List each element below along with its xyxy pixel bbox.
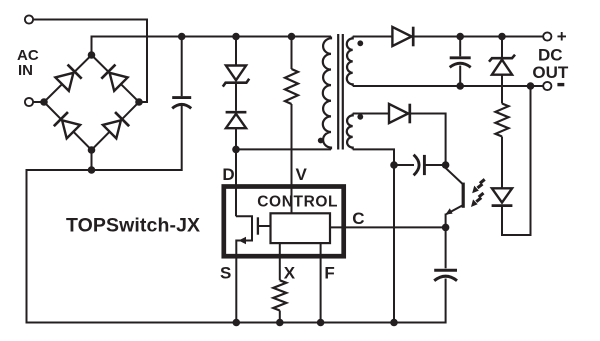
node output cap top <box>456 33 464 41</box>
label - <box>557 83 564 86</box>
node return bus below bridge <box>88 166 96 174</box>
node bias cap left <box>390 161 398 169</box>
wire AC line top from terminal to bridge right node <box>34 20 148 103</box>
svg-text:TOPSwitch-JX: TOPSwitch-JX <box>66 214 200 236</box>
svg-text:F: F <box>324 264 334 283</box>
diode output rectifier D2 <box>392 27 411 46</box>
svg-text:IN: IN <box>18 62 33 79</box>
wire zener feedback branch top <box>501 37 503 58</box>
wire AC bottom terminal to bridge left node <box>34 101 45 103</box>
wire primary return bus: cap bottom, left drop, bottom source rail, up to bypass cap <box>27 106 446 323</box>
node rail at clamp <box>232 33 240 41</box>
terminal DC OUT + <box>543 32 551 40</box>
node opto emitter / C pin <box>442 224 450 232</box>
transistor optocoupler phototransistor <box>446 165 464 185</box>
opto light arrows <box>471 177 486 194</box>
svg-text:CONTROL: CONTROL <box>257 193 338 210</box>
wire LED return to - rail <box>502 86 531 235</box>
diode clamp blocking D1 <box>226 111 247 114</box>
svg-text:DC: DC <box>538 46 563 65</box>
terminal AC input top <box>25 15 33 23</box>
wire HV+ rail from bridge to transformer primary <box>92 37 332 56</box>
bridge diode lower-right <box>103 112 130 139</box>
wire bias return down to source rail <box>353 149 394 322</box>
capacitor output C-out <box>459 37 461 57</box>
MOSFET internal Q <box>236 216 252 322</box>
resistor V-pin line sense <box>285 69 298 104</box>
resistor X external R-x <box>273 280 286 310</box>
terminal DC OUT - <box>543 82 551 90</box>
wire D node horizontal to primary bottom <box>236 148 331 150</box>
svg-text:+: + <box>557 27 567 46</box>
node source rail S <box>233 319 241 327</box>
terminal AC input bottom <box>25 98 33 106</box>
wire clamp branch upper <box>235 37 237 66</box>
transformer core <box>337 34 339 150</box>
node bridge top (+) <box>88 51 96 59</box>
LED optocoupler diode side <box>492 188 512 202</box>
wire V-pin sense branch upper <box>291 37 293 70</box>
wire F pin <box>320 243 322 322</box>
node bridge right <box>135 98 143 106</box>
wire resistor to opto LED <box>501 137 503 189</box>
svg-text:D: D <box>222 165 234 184</box>
wire X pin <box>279 243 281 280</box>
wire bias winding to bias diode <box>353 113 389 115</box>
transformer primary polarity dot <box>318 138 324 144</box>
node - rail feedback return <box>527 82 535 90</box>
transformer secondary polarity dot <box>357 40 363 46</box>
transformer T1 primary winding <box>323 37 331 150</box>
IC TOPSwitch-JX block outline <box>224 187 344 257</box>
wire between clamp zener and blocking diode <box>235 84 237 111</box>
svg-text:OUT: OUT <box>532 63 569 82</box>
node opto collector / bias + <box>442 161 450 169</box>
bridge diode upper-right <box>101 65 128 92</box>
wire C pin to opto emitter <box>330 226 446 228</box>
capacitor input bulk C-in top wire <box>181 37 183 97</box>
MOSFET gate <box>257 217 259 234</box>
node bridge left <box>40 98 48 106</box>
node source rail bias return <box>390 319 398 327</box>
capacitor control bypass C-ctl <box>434 269 457 272</box>
control block inner box <box>271 213 331 243</box>
node bridge bottom <box>88 146 96 154</box>
bridge diode upper-left <box>55 65 82 92</box>
wire output + rail <box>413 36 543 38</box>
wire output - rail <box>353 85 544 87</box>
resistor feedback R-fb <box>496 104 509 137</box>
node output cap bottom <box>456 82 464 90</box>
diode bridge frame <box>44 55 139 150</box>
svg-text:C: C <box>352 209 364 228</box>
svg-text:X: X <box>284 264 296 283</box>
transformer secondary winding <box>347 37 353 87</box>
svg-text:S: S <box>220 264 231 283</box>
node rail at V resistor <box>288 33 296 41</box>
capacitor input bulk C-in plates <box>172 96 191 99</box>
transformer bias winding <box>347 114 353 150</box>
node source rail F <box>317 319 325 327</box>
wire V-pin resistor to control block <box>291 104 293 213</box>
wire secondary top to output diode <box>353 36 393 38</box>
node rail at C-in <box>178 33 186 41</box>
wire bridge bottom to return bus <box>91 150 93 170</box>
wire clamp to D node and into MOSFET drain <box>235 128 237 216</box>
capacitor bias filter <box>394 164 414 166</box>
wire zener to feedback resistor (crosses - rail) <box>501 75 503 104</box>
diode bias rectifier D3 <box>389 104 408 123</box>
bridge diode lower-left <box>54 112 81 139</box>
zener clamp VR1 (TVS) <box>226 66 246 81</box>
node rail at zener <box>498 33 506 41</box>
node D <box>232 146 240 154</box>
wire bias diode to opto collector node <box>410 114 446 166</box>
zener feedback VR2 <box>489 55 515 62</box>
svg-text:V: V <box>296 165 308 184</box>
transformer bias polarity dot <box>357 114 363 120</box>
node source rail X <box>276 319 284 327</box>
